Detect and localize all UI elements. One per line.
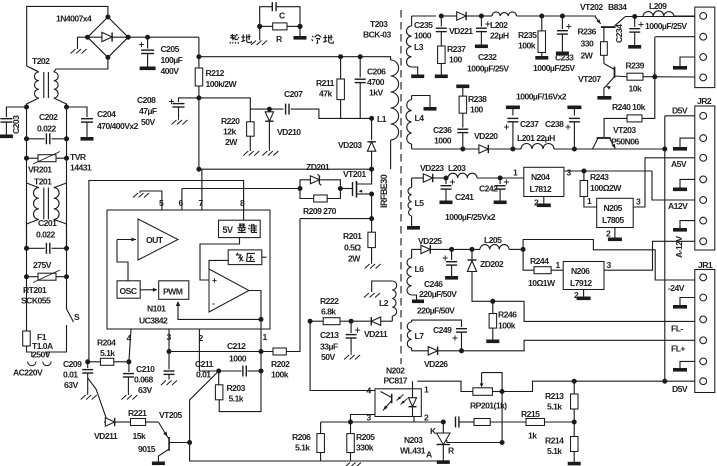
- resistor R214: [573, 422, 575, 437]
- svg-text:D5V: D5V: [672, 384, 688, 394]
- fuse F1: [23, 331, 31, 346]
- capacitor C236: [457, 128, 468, 130]
- wire current sense: [300, 218, 372, 220]
- capacitor C237: [510, 147, 515, 152]
- diode VD225: [421, 245, 430, 253]
- svg-text:R246: R246: [498, 310, 517, 320]
- ground: [680, 361, 695, 368]
- transformer T202: [31, 68, 39, 72]
- svg-text:47k: 47k: [319, 89, 332, 99]
- D5V rail: [665, 115, 695, 117]
- svg-text:0.068: 0.068: [134, 375, 154, 385]
- secondary L6: [411, 249, 413, 258]
- resistor R220: [249, 109, 251, 122]
- svg-text:1000: 1000: [434, 136, 452, 146]
- secondary L4: [412, 96, 430, 108]
- AC plug: [28, 362, 36, 366]
- svg-text:50V: 50V: [321, 352, 335, 362]
- capacitor C210: [128, 362, 130, 372]
- svg-text:2W: 2W: [581, 51, 594, 61]
- pin4 wire: [310, 321, 375, 390]
- resistor R212: [195, 68, 203, 86]
- svg-text:L205: L205: [484, 235, 502, 245]
- svg-text:100k: 100k: [518, 41, 536, 51]
- svg-text:R206: R206: [292, 432, 311, 442]
- svg-text:4700: 4700: [367, 77, 385, 87]
- wire T202 to rails: [27, 98, 39, 107]
- wire VT205 to bottom bus: [190, 443, 444, 462]
- wire L3 bus: [412, 15, 436, 17]
- svg-text:VD221: VD221: [449, 26, 473, 36]
- svg-text:FL+: FL+: [671, 344, 685, 354]
- zener ZD201: [298, 186, 303, 191]
- svg-text:C211: C211: [195, 359, 214, 369]
- svg-text:R204: R204: [97, 338, 116, 348]
- capacitor C205: [147, 37, 149, 48]
- svg-text:R209 270: R209 270: [303, 206, 337, 216]
- svg-text:C202: C202: [39, 112, 58, 122]
- svg-text:C233: C233: [555, 53, 574, 63]
- wire L7 top to C249: [412, 320, 462, 327]
- ground: [680, 298, 695, 306]
- svg-text:VT203: VT203: [613, 125, 636, 135]
- resistor R204: [85, 359, 90, 364]
- svg-text:C235: C235: [414, 20, 433, 30]
- svg-text:C237: C237: [520, 119, 539, 129]
- wire undervoltage: [209, 260, 228, 269]
- diode VD221: [441, 15, 456, 17]
- svg-text:N206: N206: [571, 266, 590, 276]
- wire A-12V: [604, 241, 695, 270]
- svg-text:100k: 100k: [498, 321, 516, 331]
- zener VD210: [267, 107, 272, 112]
- diode VD226: [412, 350, 429, 352]
- svg-text:VD203: VD203: [338, 140, 362, 150]
- svg-text:1N4007x4: 1N4007x4: [56, 14, 92, 24]
- ground: [680, 179, 695, 187]
- svg-text:T201: T201: [34, 177, 52, 187]
- svg-text:C203: C203: [11, 115, 21, 134]
- transistor VT201 IRFBE30: [340, 188, 352, 190]
- regulator N205 L7805: [597, 198, 634, 227]
- capacitor C234: [632, 14, 637, 19]
- resistor R236: [603, 27, 605, 42]
- svg-text:R215: R215: [521, 409, 540, 419]
- svg-text:D5V: D5V: [672, 106, 688, 116]
- svg-text:R212: R212: [206, 68, 225, 78]
- varistor 275V: [24, 274, 29, 279]
- resistor R206: [320, 422, 322, 434]
- svg-text:12k: 12k: [223, 127, 236, 137]
- capacitor C242: [499, 178, 501, 184]
- svg-text:VD226: VD226: [424, 359, 448, 369]
- wire bridge right to B+: [128, 36, 199, 38]
- svg-text:VD211: VD211: [364, 329, 388, 339]
- legend capacitor C: [260, 7, 273, 27]
- svg-text:IRFBE30: IRFBE30: [379, 174, 389, 208]
- capacitor C233: [560, 14, 565, 19]
- svg-text:JR2: JR2: [697, 96, 712, 106]
- resistor R202: [273, 348, 286, 355]
- svg-text:R238: R238: [468, 94, 487, 104]
- svg-text:C204: C204: [97, 109, 116, 119]
- svg-text:1000µF/25Vx2: 1000µF/25Vx2: [445, 212, 496, 222]
- transistor VT203 P50N06: [574, 148, 664, 150]
- svg-text:15k: 15k: [133, 431, 146, 441]
- optocoupler N202 PC817: [375, 389, 421, 417]
- svg-text:275V: 275V: [33, 260, 52, 270]
- svg-text:ZD202: ZD202: [480, 259, 504, 269]
- svg-text:T203: T203: [370, 19, 388, 29]
- svg-text:100: 100: [470, 105, 483, 115]
- secondary L3: [411, 16, 413, 26]
- svg-text:0.022: 0.022: [36, 230, 56, 240]
- svg-text:5.1k: 5.1k: [295, 443, 310, 453]
- svg-text:VR201: VR201: [28, 165, 52, 175]
- svg-text:C249: C249: [433, 325, 452, 335]
- secondary L5: [411, 178, 413, 187]
- connector top: [695, 7, 715, 88]
- svg-text:VD225: VD225: [418, 236, 442, 246]
- resistor R238: [456, 85, 469, 89]
- svg-text:0.5Ω: 0.5Ω: [344, 243, 361, 253]
- wire VCC to snubber: [199, 98, 250, 109]
- VCC rail: [199, 168, 372, 170]
- svg-text:50V: 50V: [141, 117, 155, 127]
- wire top loop: [27, 6, 108, 66]
- capacitor C246: [449, 247, 454, 252]
- OUT amplifier: [138, 219, 178, 260]
- svg-text:470/400Vx2: 470/400Vx2: [97, 121, 139, 131]
- svg-text:R237: R237: [447, 44, 466, 54]
- svg-text:N202: N202: [386, 366, 405, 376]
- svg-text:330: 330: [581, 39, 594, 49]
- svg-text:R201: R201: [343, 231, 362, 241]
- wire FL+: [462, 340, 695, 351]
- transistor VT205 9015: [158, 422, 163, 431]
- light arrows: [397, 395, 404, 401]
- resistor R246: [492, 301, 494, 313]
- svg-text:C: C: [279, 11, 285, 21]
- inductor L209: [643, 11, 674, 16]
- resistor R244: [523, 249, 534, 270]
- capacitor C235: [440, 16, 442, 27]
- ground: [680, 221, 695, 228]
- svg-text:L2: L2: [379, 298, 389, 308]
- svg-text:C242: C242: [479, 184, 498, 194]
- svg-text:C246: C246: [424, 279, 443, 289]
- K bus: [321, 421, 444, 423]
- svg-text:ZD201: ZD201: [306, 162, 330, 172]
- resistor R239: [627, 73, 643, 80]
- capacitor C213: [349, 319, 354, 324]
- resistor R211: [338, 54, 343, 59]
- zener ZD202: [470, 247, 475, 252]
- svg-text:L3: L3: [414, 42, 424, 52]
- inductor L2: [372, 281, 393, 292]
- svg-text:R214: R214: [545, 436, 564, 446]
- svg-text:L7: L7: [415, 331, 425, 341]
- capacitor C202: [24, 136, 29, 141]
- svg-text:PC817: PC817: [384, 376, 408, 386]
- transformer T203 core: [400, 10, 402, 364]
- svg-text:L5: L5: [415, 198, 425, 208]
- svg-text:OSC: OSC: [120, 286, 137, 296]
- svg-text:2W: 2W: [348, 254, 361, 264]
- svg-text:L7805: L7805: [602, 215, 624, 225]
- resistor R235: [539, 14, 544, 19]
- inductor L203: [446, 177, 448, 179]
- resistor R201: [371, 194, 373, 219]
- svg-text:330k: 330k: [356, 443, 374, 453]
- resistor R203 loop: [218, 371, 220, 385]
- svg-text:RT201: RT201: [23, 285, 47, 295]
- svg-text:5.1k: 5.1k: [100, 348, 115, 358]
- svg-text:PWM: PWM: [163, 287, 183, 297]
- capacitor C208: [179, 98, 199, 102]
- diode VD220: [479, 145, 488, 153]
- op-amp N101 UC3842 box: [107, 210, 270, 329]
- svg-text:5.1k: 5.1k: [547, 402, 562, 412]
- hot ground: [259, 26, 261, 40]
- varistor VR201: [24, 156, 29, 161]
- svg-text:22µH: 22µH: [490, 31, 509, 41]
- svg-text:A12V: A12V: [668, 201, 688, 211]
- diode VD211: [88, 378, 107, 422]
- LED: [412, 381, 414, 399]
- svg-text:VD220: VD220: [474, 131, 498, 141]
- wire A5V: [633, 158, 695, 207]
- ground: [78, 37, 88, 47]
- svg-text:100Ω2W: 100Ω2W: [590, 183, 622, 193]
- resistor R213: [573, 381, 575, 394]
- pin2 wire: [413, 417, 415, 423]
- arrow into OUT: [117, 239, 136, 241]
- capacitor C241: [444, 176, 449, 181]
- svg-text:1000µF/25V: 1000µF/25V: [467, 64, 509, 74]
- svg-text:R239: R239: [626, 61, 645, 71]
- svg-text:L4: L4: [415, 113, 425, 123]
- svg-text:C205: C205: [161, 44, 180, 54]
- right rail: [66, 107, 68, 309]
- regulator N206 L7912: [563, 262, 604, 290]
- svg-text:TVR: TVR: [70, 152, 87, 162]
- svg-text:C212: C212: [227, 341, 246, 351]
- svg-text:FL-: FL-: [671, 324, 683, 334]
- undervoltage box: [228, 250, 262, 265]
- svg-text:UC3842: UC3842: [139, 316, 168, 326]
- wire L5 bus: [412, 177, 424, 179]
- svg-text:SCK055: SCK055: [21, 296, 51, 306]
- capacitor C212: [216, 369, 221, 374]
- svg-text:L6: L6: [415, 264, 425, 274]
- wire C212 to VT205: [190, 371, 219, 443]
- capacitor C249: [456, 328, 467, 330]
- FL- net: [486, 300, 524, 302]
- wire pin6 to gate loop: [182, 188, 300, 190]
- svg-text:1k: 1k: [528, 431, 537, 441]
- svg-text:5.1k: 5.1k: [229, 394, 244, 404]
- left rail: [26, 107, 28, 331]
- svg-text:C241: C241: [455, 192, 474, 202]
- svg-text:C207: C207: [284, 89, 303, 99]
- svg-text:R244: R244: [530, 256, 549, 266]
- svg-text:-24V: -24V: [668, 283, 685, 293]
- ground: [680, 138, 695, 147]
- svg-text:R202: R202: [271, 359, 290, 369]
- svg-text:N205: N205: [604, 203, 623, 213]
- ground: [680, 57, 695, 66]
- secondary L7: [411, 320, 413, 322]
- svg-text:C234: C234: [614, 24, 624, 43]
- svg-text:VD223: VD223: [420, 163, 444, 173]
- svg-text:L203: L203: [448, 163, 466, 173]
- wire A12V: [652, 171, 695, 200]
- wire top connector pin2: [655, 36, 695, 38]
- inductor L202: [481, 15, 492, 17]
- svg-text:C206: C206: [367, 67, 386, 77]
- label hot ground: [230, 34, 239, 44]
- transistor VT207: [603, 55, 605, 63]
- capacitor C201: [24, 246, 29, 251]
- svg-text:VT201: VT201: [343, 169, 366, 179]
- svg-text:10k: 10k: [629, 84, 642, 94]
- svg-text:400V: 400V: [161, 66, 180, 76]
- svg-text:63V: 63V: [64, 380, 78, 390]
- svg-text:1000µF/16Vx2: 1000µF/16Vx2: [516, 92, 567, 102]
- transistor VT202 B834: [601, 26, 616, 28]
- svg-text:VT202: VT202: [580, 2, 603, 12]
- svg-text:100k: 100k: [271, 370, 289, 380]
- svg-text:5.1k: 5.1k: [547, 446, 562, 456]
- capacitor C209: [87, 362, 89, 368]
- capacitor C204: [67, 107, 88, 117]
- inductor L201: [513, 148, 521, 150]
- svg-text:L1: L1: [377, 114, 387, 124]
- svg-text:L7812: L7812: [530, 184, 552, 194]
- svg-text:100µF: 100µF: [161, 55, 183, 65]
- svg-text:R220: R220: [221, 116, 240, 126]
- svg-text:A5V: A5V: [671, 159, 687, 169]
- resistor R237: [438, 46, 446, 64]
- wire RP201 wiper net: [501, 392, 503, 443]
- svg-text:L201 22µH: L201 22µH: [517, 133, 555, 143]
- resistor R221: [131, 419, 146, 426]
- svg-text:1000: 1000: [229, 354, 247, 364]
- wire B+ down: [198, 37, 200, 68]
- svg-text:C201: C201: [38, 218, 57, 228]
- svg-text:A: A: [426, 450, 432, 460]
- wire L6 bus: [412, 248, 421, 250]
- svg-text:5V: 5V: [223, 225, 233, 235]
- svg-text:C238: C238: [545, 119, 564, 129]
- D5V bus: [412, 148, 479, 150]
- svg-text:1000µF/25V: 1000µF/25V: [533, 63, 575, 73]
- svg-text:OUT: OUT: [146, 235, 164, 245]
- resistor feedback: [459, 421, 474, 423]
- wire bridge bottom to T202: [54, 57, 108, 72]
- svg-text:220µF/50V: 220µF/50V: [417, 306, 455, 316]
- svg-text:R203: R203: [227, 383, 246, 393]
- svg-text:220µF/50V: 220µF/50V: [419, 289, 457, 299]
- svg-text:1kV: 1kV: [369, 88, 383, 98]
- potentiometer RP201: [417, 381, 473, 391]
- svg-text:WL431: WL431: [400, 446, 426, 456]
- svg-text:N203: N203: [404, 435, 423, 445]
- inductor L205: [480, 245, 509, 250]
- svg-text:R213: R213: [545, 391, 564, 401]
- svg-text:R211: R211: [316, 78, 335, 88]
- svg-text:63V: 63V: [138, 385, 152, 395]
- resistor R205: [350, 422, 352, 434]
- legend resistor R: [260, 25, 273, 27]
- wire -24V: [523, 240, 695, 281]
- svg-text:R243: R243: [590, 172, 609, 182]
- capacitor C203: [6, 107, 26, 117]
- resistor R243: [583, 171, 585, 181]
- svg-text:9015: 9015: [138, 444, 156, 454]
- arrow OSC to PWM: [140, 289, 156, 291]
- capacitor C207: [285, 104, 287, 115]
- svg-text:R205: R205: [356, 432, 375, 442]
- resistor R222: [340, 320, 351, 322]
- bridge rectifier 1N4007x4: [88, 17, 129, 57]
- svg-text:N204: N204: [531, 172, 550, 182]
- svg-text:VT205: VT205: [159, 410, 182, 420]
- capacitor C206: [358, 54, 363, 59]
- label cold ground: [312, 34, 321, 43]
- diode VD203: [369, 116, 374, 121]
- svg-text:47µF: 47µF: [139, 106, 157, 116]
- svg-text:2W: 2W: [225, 137, 238, 147]
- capacitor C232: [479, 14, 484, 19]
- svg-text:R236: R236: [578, 27, 597, 37]
- svg-text:1000µF/25V: 1000µF/25V: [645, 21, 687, 31]
- pin3 wire: [351, 415, 376, 423]
- svg-text:JR1: JR1: [698, 260, 713, 270]
- svg-text:S: S: [74, 312, 80, 322]
- svg-text:R240 10k: R240 10k: [612, 102, 646, 112]
- svg-text:C213: C213: [320, 330, 339, 340]
- svg-text:AC220V: AC220V: [13, 368, 43, 378]
- svg-text:C209: C209: [63, 359, 82, 369]
- photo transistor: [391, 394, 393, 403]
- svg-text:+: +: [212, 275, 217, 285]
- svg-text:BCK-03: BCK-03: [363, 30, 392, 40]
- svg-text:R235: R235: [518, 30, 537, 40]
- svg-text:L202: L202: [490, 20, 508, 30]
- svg-text:0.01: 0.01: [63, 370, 78, 380]
- svg-text:T202: T202: [32, 56, 50, 66]
- 5V reference box: [219, 220, 261, 237]
- D5V bus lower: [502, 381, 695, 391]
- svg-text:R221: R221: [128, 408, 147, 418]
- comparator: [209, 269, 249, 312]
- svg-text:33µF: 33µF: [320, 342, 338, 352]
- svg-text:L209: L209: [649, 1, 667, 11]
- svg-text:C232: C232: [478, 52, 497, 62]
- svg-text:C210: C210: [136, 364, 155, 374]
- svg-text:100: 100: [449, 55, 462, 65]
- svg-text:14431: 14431: [70, 163, 92, 173]
- transformer T203 primary L1: [391, 60, 399, 140]
- svg-text:VD211: VD211: [94, 431, 118, 441]
- PWM box: [159, 281, 189, 300]
- svg-text:R222: R222: [320, 296, 339, 306]
- resistor R209: [300, 189, 314, 199]
- svg-text:250V: 250V: [32, 350, 51, 360]
- wire B+ bus to transformer: [199, 57, 391, 60]
